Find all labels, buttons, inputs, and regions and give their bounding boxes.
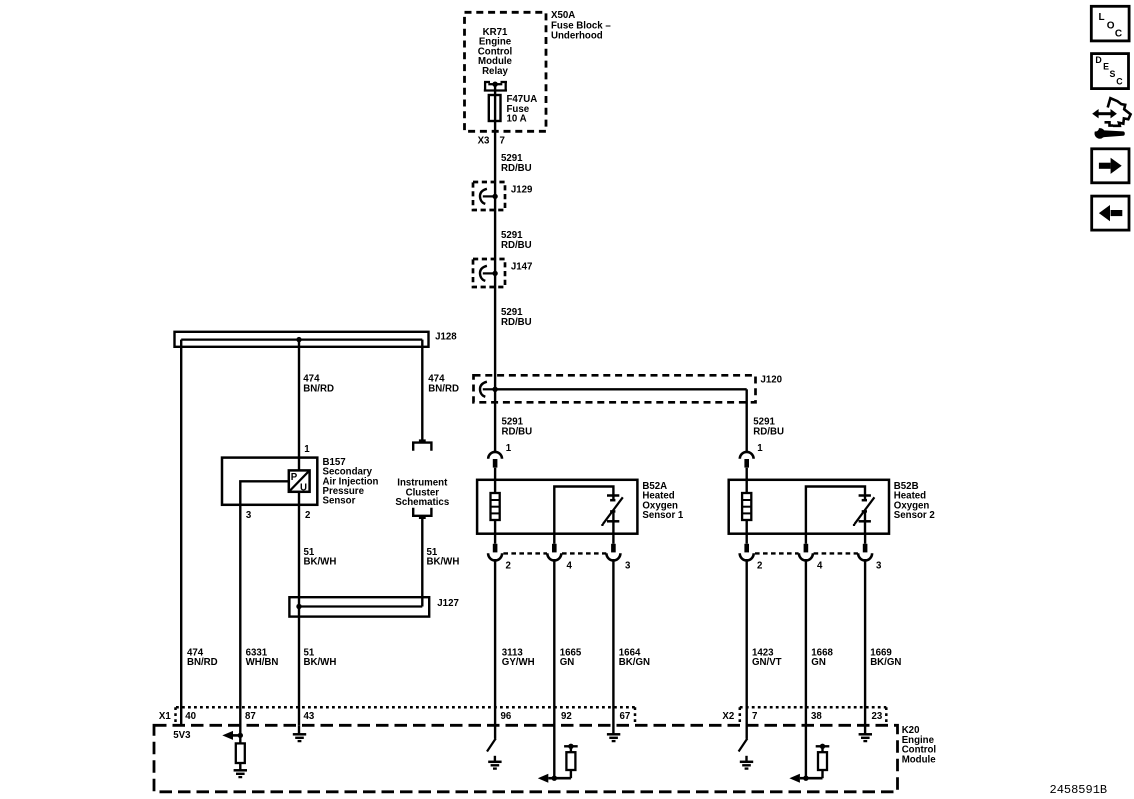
svg-text:Sensor 1: Sensor 1	[642, 510, 684, 521]
svg-text:RD/BU: RD/BU	[501, 240, 532, 251]
svg-text:38: 38	[811, 711, 822, 722]
svg-text:X1: X1	[159, 711, 171, 722]
svg-text:J120: J120	[761, 374, 783, 385]
svg-text:5V3: 5V3	[173, 730, 191, 741]
svg-text:U: U	[300, 482, 307, 493]
svg-text:D: D	[1095, 55, 1101, 65]
svg-text:1: 1	[757, 443, 763, 454]
svg-text:67: 67	[620, 711, 631, 722]
svg-text:GY/WH: GY/WH	[502, 657, 535, 668]
svg-text:RD/BU: RD/BU	[502, 427, 533, 438]
svg-text:P: P	[291, 472, 298, 483]
svg-text:J127: J127	[437, 598, 459, 609]
svg-text:J129: J129	[511, 184, 533, 195]
svg-text:2458591B: 2458591B	[1050, 783, 1108, 797]
svg-text:96: 96	[501, 711, 512, 722]
svg-text:GN: GN	[560, 657, 575, 668]
svg-text:7: 7	[752, 711, 757, 722]
svg-text:BN/RD: BN/RD	[428, 384, 459, 395]
svg-text:BN/RD: BN/RD	[303, 384, 334, 395]
svg-text:J147: J147	[511, 261, 533, 272]
svg-text:1: 1	[506, 443, 512, 454]
svg-text:X2: X2	[722, 711, 734, 722]
svg-text:2: 2	[506, 560, 511, 571]
svg-text:O: O	[1107, 20, 1115, 31]
svg-text:GN: GN	[811, 657, 826, 668]
svg-text:C: C	[1116, 77, 1123, 87]
svg-text:Underhood: Underhood	[551, 31, 603, 42]
svg-text:RD/BU: RD/BU	[501, 317, 532, 328]
svg-text:RD/BU: RD/BU	[753, 427, 784, 438]
svg-text:Schematics: Schematics	[395, 497, 449, 508]
svg-text:10 A: 10 A	[507, 114, 527, 125]
svg-text:Sensor 2: Sensor 2	[894, 510, 935, 521]
svg-text:C: C	[1115, 28, 1122, 39]
svg-text:Sensor: Sensor	[323, 496, 356, 507]
svg-text:Module: Module	[902, 755, 937, 766]
svg-text:4: 4	[567, 560, 573, 571]
svg-text:BK/GN: BK/GN	[619, 657, 650, 668]
svg-text:3: 3	[625, 560, 631, 571]
svg-text:BN/RD: BN/RD	[187, 657, 218, 668]
svg-text:BK/WH: BK/WH	[427, 557, 460, 568]
svg-text:3: 3	[246, 510, 252, 521]
svg-text:7: 7	[500, 135, 505, 146]
svg-text:GN/VT: GN/VT	[752, 657, 782, 668]
svg-text:J128: J128	[435, 331, 457, 342]
svg-text:BK/WH: BK/WH	[304, 557, 337, 568]
svg-text:2: 2	[757, 560, 762, 571]
svg-text:2: 2	[305, 510, 310, 521]
svg-text:87: 87	[245, 711, 256, 722]
svg-text:1: 1	[304, 444, 310, 455]
svg-text:WH/BN: WH/BN	[246, 657, 279, 668]
svg-text:23: 23	[872, 711, 883, 722]
svg-text:L: L	[1098, 12, 1104, 23]
svg-text:Relay: Relay	[482, 66, 508, 77]
svg-text:40: 40	[185, 711, 196, 722]
svg-text:4: 4	[817, 560, 823, 571]
svg-text:BK/WH: BK/WH	[304, 657, 337, 668]
svg-text:E: E	[1103, 62, 1109, 72]
svg-text:3: 3	[876, 560, 882, 571]
svg-text:BK/GN: BK/GN	[870, 657, 901, 668]
svg-text:X3: X3	[478, 135, 490, 146]
svg-text:RD/BU: RD/BU	[501, 163, 532, 174]
svg-text:S: S	[1109, 69, 1115, 79]
svg-text:92: 92	[561, 711, 572, 722]
svg-text:43: 43	[304, 711, 315, 722]
